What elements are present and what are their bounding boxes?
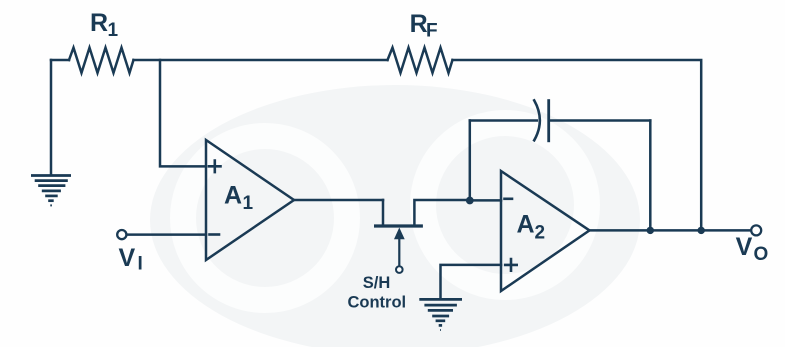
svg-text:R: R — [410, 10, 428, 38]
wire A1 plus branch — [160, 60, 206, 166]
wire A2 minus input — [470, 199, 501, 202]
svg-text:R: R — [90, 9, 108, 37]
wire A2 plus branch — [441, 265, 502, 298]
transistor Q1 gate arrowhead — [394, 228, 405, 240]
op-amp A1 — [206, 140, 294, 260]
svg-text:I: I — [138, 254, 143, 275]
wire VI to A1 minus — [127, 233, 206, 236]
wire A1 output — [294, 199, 383, 202]
svg-text:A: A — [224, 182, 242, 210]
terminal VO — [751, 225, 761, 235]
transistor Q1 gate arrow shaft — [398, 236, 400, 266]
plus sign A2 — [505, 259, 517, 271]
svg-text:V: V — [119, 244, 136, 272]
svg-text:1: 1 — [108, 20, 119, 41]
ground A2 plus — [419, 299, 462, 330]
svg-text:1: 1 — [243, 193, 254, 214]
wire capacitor right vertical — [649, 121, 652, 231]
watermark — [150, 85, 640, 347]
terminal VI — [117, 230, 126, 239]
plus sign A1 — [209, 161, 221, 173]
wire left vertical to ground — [50, 60, 53, 175]
capacitor C1 curved plate — [534, 100, 540, 140]
wire capacitor left horizontal — [470, 119, 537, 122]
transistor Q1 drain lead — [414, 200, 469, 225]
svg-text:S/H: S/H — [363, 274, 391, 292]
minus sign A2 — [505, 198, 513, 201]
node capacitor-output junction — [647, 227, 654, 234]
node feedback-output junction — [698, 227, 705, 234]
svg-text:Control: Control — [347, 294, 406, 312]
svg-text:V: V — [736, 233, 753, 261]
op-amp A2 — [501, 171, 590, 291]
resistor RF — [388, 48, 453, 73]
terminal S/H control — [396, 266, 403, 273]
wire top right to output node — [453, 60, 702, 230]
svg-text:2: 2 — [535, 223, 546, 244]
ground left — [31, 176, 71, 206]
svg-text:A: A — [517, 211, 535, 239]
svg-text:F: F — [426, 21, 438, 42]
minus sign A1 — [210, 233, 220, 236]
wire top-left stub — [51, 59, 69, 62]
wire A2 output to VO — [590, 229, 751, 232]
capacitor C1 straight plate — [547, 101, 550, 141]
wire capacitor left branch — [469, 121, 472, 200]
wire top middle — [134, 59, 388, 62]
transistor Q1 channel bar — [376, 224, 422, 227]
resistor R1 — [69, 48, 134, 73]
node A2 minus junction — [466, 197, 474, 205]
svg-text:O: O — [754, 244, 769, 265]
wire capacitor right horizontal — [551, 119, 650, 122]
transistor Q1 source lead — [382, 200, 385, 225]
